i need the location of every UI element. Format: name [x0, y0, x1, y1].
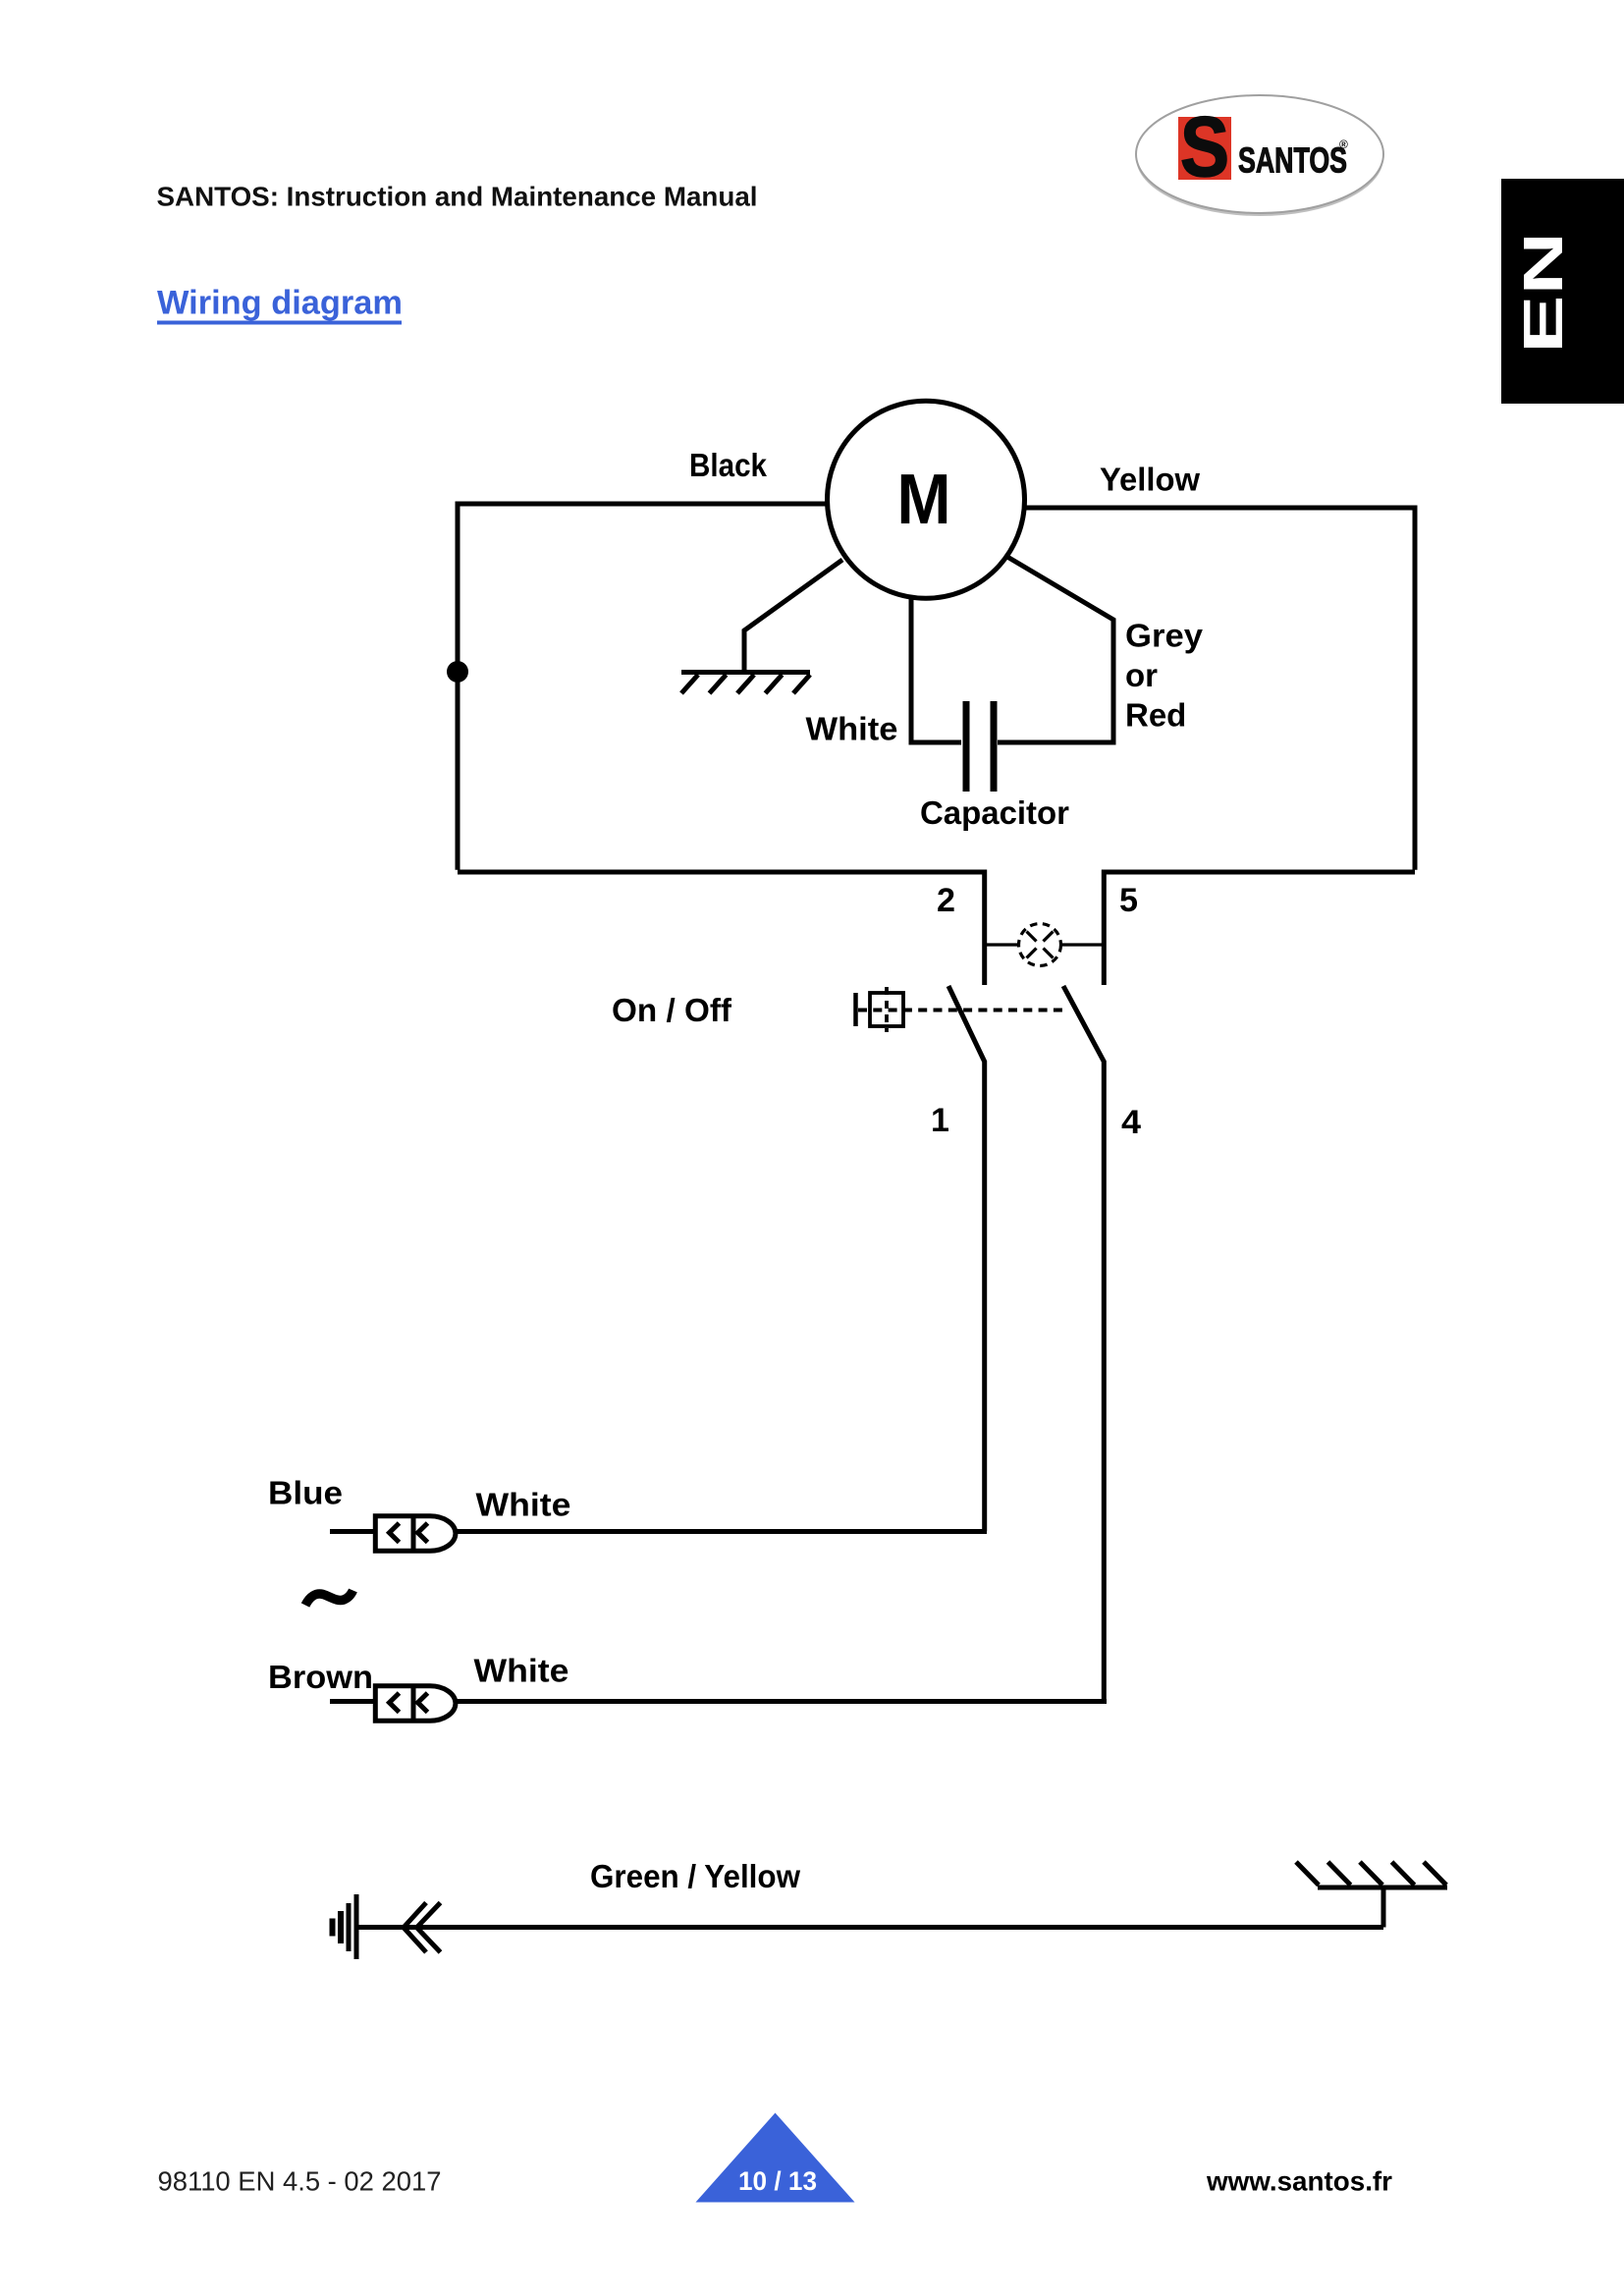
svg-text:or: or	[1125, 657, 1158, 693]
wire motor bottom to capacitor	[911, 597, 961, 742]
svg-text:Red: Red	[1125, 697, 1186, 734]
ground symbol under motor	[681, 673, 810, 694]
green/yellow earth wire	[358, 1925, 1383, 1930]
footer page triangle	[696, 2113, 855, 2203]
svg-text:Black: Black	[689, 447, 768, 483]
wire up to right ground	[1381, 1887, 1386, 1928]
svg-text:Green / Yellow: Green / Yellow	[590, 1858, 800, 1894]
svg-text:White: White	[476, 1487, 571, 1523]
mechanical link dashed line	[858, 1009, 1066, 1012]
connector (brown lead)	[330, 1686, 456, 1721]
label Grey or Red	[1125, 618, 1204, 734]
svg-text:EN: EN	[1512, 232, 1575, 354]
capacitor C plates	[966, 701, 994, 792]
svg-text:White: White	[806, 711, 898, 747]
svg-text:Blue: Blue	[268, 1475, 343, 1511]
svg-text:4: 4	[1121, 1104, 1141, 1141]
svg-text:Grey: Grey	[1125, 618, 1204, 654]
earth fading-bar symbol	[330, 1894, 359, 1959]
AC tilde symbol	[305, 1591, 353, 1606]
svg-text:Brown: Brown	[268, 1659, 373, 1695]
switch blade left (2-1)	[948, 986, 985, 1531]
svg-text:SANTOS: SANTOS	[1238, 140, 1347, 181]
connector (blue lead)	[330, 1516, 456, 1551]
svg-text:S: S	[1180, 100, 1229, 194]
ground symbol right (hatches above)	[1296, 1862, 1447, 1887]
svg-text:Wiring diagram: Wiring diagram	[157, 285, 403, 322]
wire black top-left	[458, 504, 827, 870]
double chevron on earth wire	[404, 1903, 441, 1953]
svg-text:1: 1	[931, 1102, 949, 1139]
svg-text:98110 EN 4.5 - 02 2017: 98110 EN 4.5 - 02 2017	[158, 2166, 442, 2197]
switch actuator bar	[853, 993, 858, 1026]
Wiring diagram heading	[157, 285, 403, 325]
motor M circle	[828, 401, 1025, 598]
svg-text:Capacitor: Capacitor	[920, 794, 1069, 831]
wire motor to ground (diagonal)	[744, 560, 842, 670]
svg-text:5: 5	[1119, 882, 1138, 919]
svg-text:www.santos.fr: www.santos.fr	[1206, 2166, 1392, 2197]
wire yellow top-right	[1025, 508, 1415, 870]
lamp (dashed circle with X)	[987, 924, 1104, 966]
header title	[157, 182, 758, 212]
switch actuator box	[870, 993, 903, 1026]
svg-text:10 / 13: 10 / 13	[738, 2166, 817, 2196]
svg-text:M: M	[896, 459, 950, 538]
wire bottom left segment to terminal 2	[458, 872, 985, 985]
svg-text:SANTOS: Instruction and Mainte: SANTOS: Instruction and Maintenance Manu…	[157, 182, 758, 212]
junction node dot	[447, 661, 468, 683]
EN language tab	[1501, 179, 1624, 404]
svg-text:White: White	[474, 1653, 569, 1689]
wire white from brown connector to terminal 4	[456, 1699, 1107, 1704]
svg-text:Yellow: Yellow	[1100, 462, 1200, 498]
wire capacitor right to motor	[998, 557, 1113, 742]
wire white from blue connector to terminal 1	[456, 1529, 987, 1534]
switch blade right (5-4)	[1063, 986, 1104, 1699]
svg-text:On / Off: On / Off	[612, 992, 732, 1028]
SANTOS logo	[1136, 95, 1383, 216]
actuator dashed center line	[885, 987, 889, 1032]
svg-text:2: 2	[937, 882, 955, 919]
wire bottom right segment to terminal 5	[1104, 872, 1415, 985]
svg-text:®: ®	[1339, 137, 1348, 151]
